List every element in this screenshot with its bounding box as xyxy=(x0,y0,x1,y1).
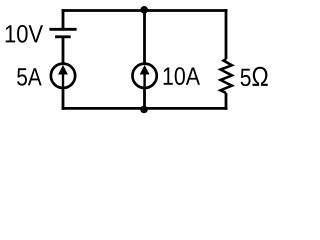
current source 5A arrow xyxy=(62,72,64,87)
current source 10A arrow xyxy=(143,72,145,87)
wire middle branch top xyxy=(143,11,146,65)
wire bottom (node B: battery - to resistor bottom) xyxy=(62,107,228,110)
wire 5A source to bottom wire xyxy=(62,88,65,110)
wire resistor top lead xyxy=(225,9,228,59)
wire resistor bottom lead xyxy=(225,93,228,110)
label 10A xyxy=(164,67,200,85)
label 10V xyxy=(6,25,43,43)
resistor 5 ohm zigzag xyxy=(221,59,232,93)
label 5A xyxy=(17,68,42,85)
label 5Ω xyxy=(241,67,268,86)
junction node bottom xyxy=(140,106,148,114)
wire battery to 5A source xyxy=(62,37,65,64)
current source 10A circle xyxy=(132,64,156,88)
battery 10V short plate (-) xyxy=(55,35,71,38)
battery 10V long plate (+) xyxy=(49,28,76,31)
junction node top xyxy=(140,6,148,14)
wire top (node A: battery + to resistor top) xyxy=(62,9,228,12)
current source 5A circle xyxy=(51,64,75,88)
wire middle branch bottom xyxy=(143,88,146,109)
wire battery positive stub xyxy=(62,9,65,30)
